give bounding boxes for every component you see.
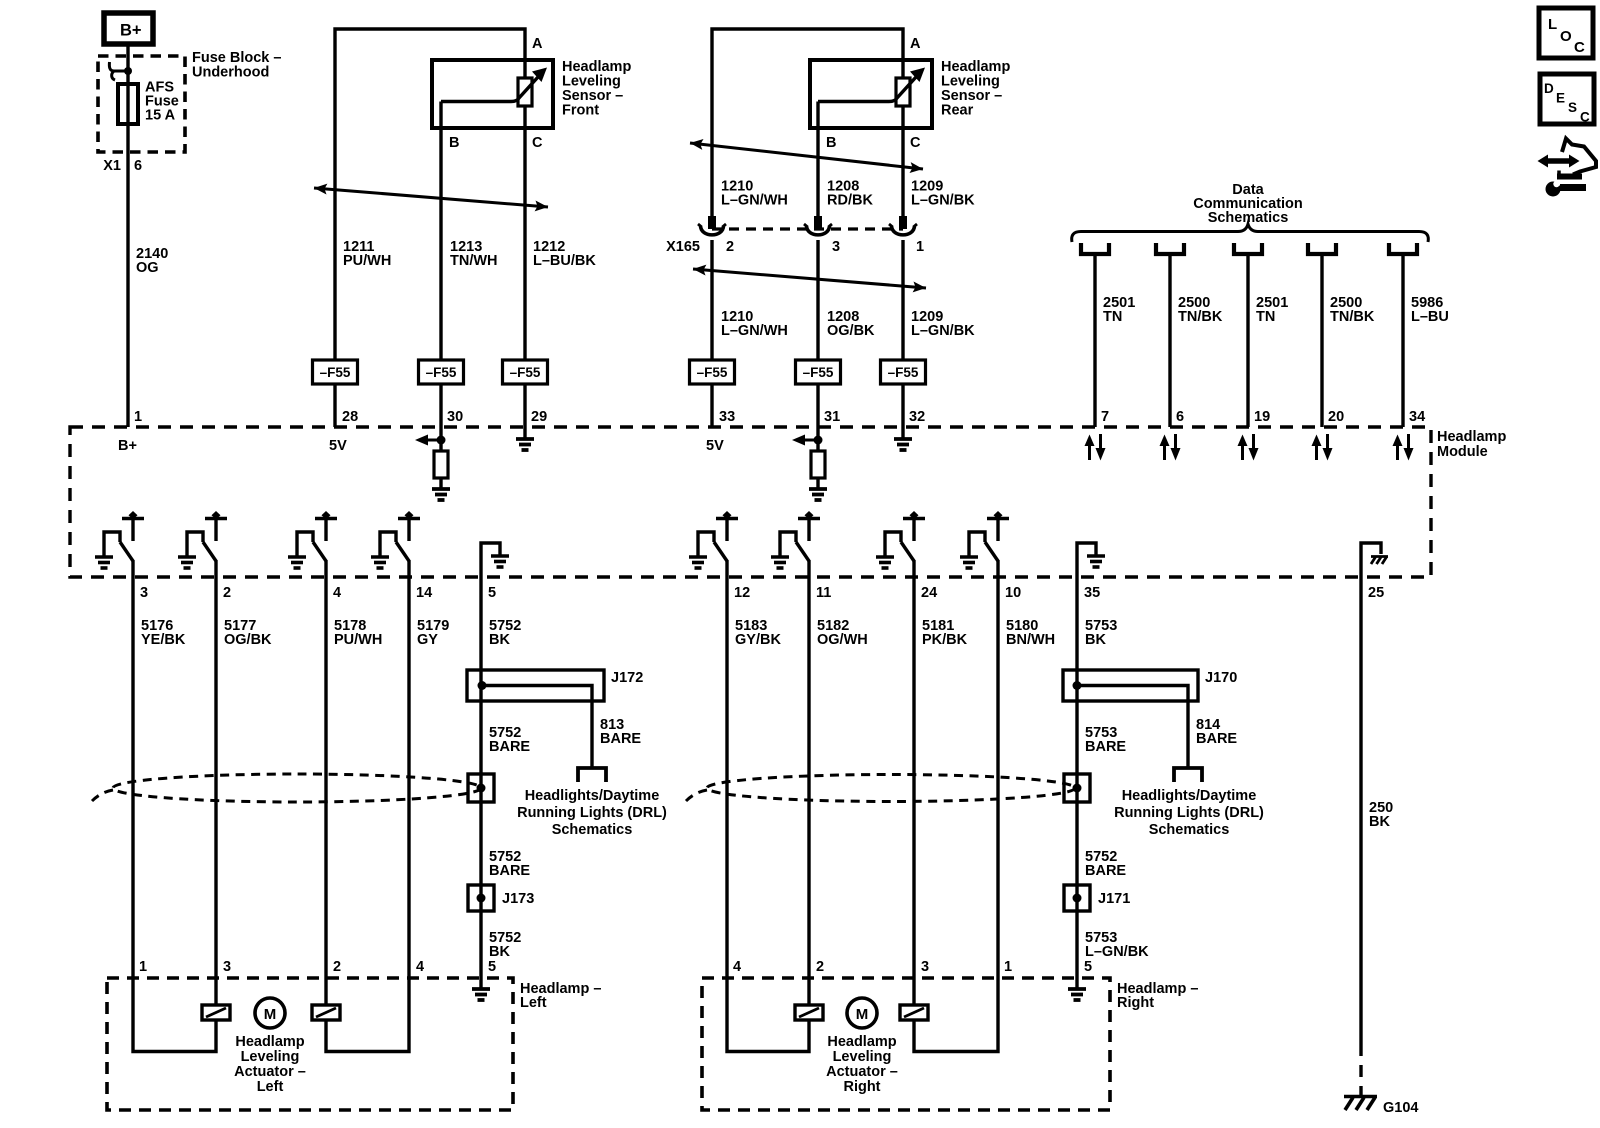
wire 5178 PU/WH module to headlamp left [324,577,327,978]
connector X165 terminal pin 2 [698,216,726,235]
label Headlamp Leveling Sensor - Front [562,59,631,119]
off-page continuation arrow (rear sensor wires upper) [690,139,923,173]
ground (driver pin 14) [371,557,389,568]
svg-text:M: M [856,1006,869,1023]
ground (headlamp left) [472,989,490,1000]
svg-text:BARE: BARE [1196,731,1237,747]
label Headlamp - Left [520,981,601,1011]
terminal symbol (serial data wire 2501 TN (a)) [1081,243,1109,254]
internal driver switch for pin 3 (5176) [104,511,144,561]
svg-text:–F55: –F55 [510,365,541,380]
connector C2 label box -F55 (wire 1211) [313,360,358,384]
connector X165 terminal pin 3 [804,216,832,235]
svg-text:6: 6 [134,158,142,174]
inline connector X165 dashed tie line [712,227,903,230]
svg-text:Schematics: Schematics [552,822,633,838]
svg-text:M: M [264,1006,277,1023]
wire label 1212 L-BU/BK [533,239,596,269]
svg-text:Rear: Rear [941,103,974,119]
svg-text:–F55: –F55 [803,365,834,380]
terminal symbol (serial data wire 2500 TN/BK (a)) [1156,243,1184,254]
wire 813 BARE branch from J172 [482,686,592,768]
svg-text:Front: Front [562,103,599,119]
wire label 5753 BARE [1085,725,1126,755]
svg-text:Running Lights (DRL): Running Lights (DRL) [1114,805,1264,821]
svg-text:4: 4 [416,959,424,975]
internal driver switch for pin 11 (5182) [780,511,820,561]
svg-text:1: 1 [1004,959,1012,975]
bidirectional data arrows at pin 7 [1085,434,1106,461]
svg-text:5: 5 [488,585,496,601]
wire 5179 GY module to headlamp left [407,577,410,978]
wire label 1213 TN/WH [450,239,498,269]
wire pin 3 to feedback resistor (right) [912,978,915,1005]
svg-text:D: D [1544,81,1554,96]
ground (driver pin 24) [876,557,894,568]
label Data Communication Schematics [1193,182,1303,226]
junction at J172 [478,681,487,690]
feedback resistor (headlamp right pin 2) [795,1005,823,1020]
feedback resistor (headlamp left pins 3) [202,1005,230,1020]
brace over data communication wires [1072,224,1429,242]
shield / loom dashed ellipse (right harness) [686,775,1075,802]
wire pin 5 to ground inside headlamp left [479,978,482,988]
junction at fuse holder [124,67,132,75]
ground (driver pin 12) [689,557,707,568]
connector X165 terminal pin 1 [889,216,917,235]
wire label 1210 L-GN/WH (lower) [721,309,788,339]
svg-text:TN/BK: TN/BK [1178,309,1223,325]
svg-text:GY: GY [417,632,438,648]
svg-text:2: 2 [333,959,341,975]
svg-text:5: 5 [488,959,496,975]
ground (pin 31 internal) [809,489,827,500]
motor M (headlamp leveling actuator left) [255,998,285,1028]
ground (pin 32 internal) [894,439,912,450]
svg-text:5V: 5V [706,438,724,454]
label Headlamp Module [1437,429,1506,460]
svg-text:29: 29 [531,409,547,425]
wire label 5753 L-GN/BK [1085,930,1149,960]
wire resistor to ground (pin 31) [816,478,819,488]
wire 5752 BK/BARE module pin 5 to headlamp left [479,577,482,978]
ground (driver pin 4) [288,557,306,568]
resistor (pin 30 pull-down) [434,451,448,478]
serial data wire 2501 TN (a) [1093,254,1096,427]
svg-text:BN/WH: BN/WH [1006,632,1055,648]
svg-text:OG/BK: OG/BK [224,632,272,648]
junction at shield drain (right) [1073,784,1082,793]
svg-text:–F55: –F55 [320,365,351,380]
connector C2 label box -F55 (wire 1210) [690,360,735,384]
wire label 5178 PU/WH [334,618,382,648]
shield / loom dashed ellipse (left harness) [92,774,481,802]
svg-text:L–GN/WH: L–GN/WH [721,323,788,339]
svg-text:7: 7 [1101,409,1109,425]
connector C2 label box -F55 (wire 1208) [796,360,841,384]
svg-text:Left: Left [520,995,547,1011]
svg-text:Underhood: Underhood [192,65,269,81]
internal chassis ground hook for pin 25 [1361,543,1381,577]
terminal symbol (serial data wire 2500 TN/BK (b)) [1308,243,1336,254]
off-page continuation arrow (rear sensor wires lower) [693,265,926,293]
svg-text:C: C [1580,110,1590,125]
battery feed B+ terminal box [104,13,153,44]
svg-text:35: 35 [1084,585,1100,601]
bidirectional data arrows at pin 20 [1312,434,1333,461]
svg-text:3: 3 [921,959,929,975]
junction at J173 [477,894,486,903]
splice J171 [1064,885,1090,911]
shield drain connector box (right) [1064,774,1090,802]
serial data wire 5986 L-BU [1401,254,1404,427]
svg-text:Headlights/Daytime: Headlights/Daytime [1122,788,1257,804]
svg-text:L: L [1548,16,1557,33]
wire 1209 L-GN/BK: sensor pin C through X165 pin 1 [901,106,904,360]
svg-text:B: B [449,135,459,151]
svg-text:PK/BK: PK/BK [922,632,968,648]
driver output to pin 10 [996,560,999,577]
headlamp - left (dashed outline) [107,978,513,1110]
wire resistor to ground (pin 30) [439,478,442,488]
label Headlights DRL Schematics (left) [517,788,667,838]
wire label 5752 BARE (mid-lower) [489,849,530,879]
ground (driver pin 2) [178,557,196,568]
driver output to pin 12 [725,560,728,577]
driver output to pin 24 [912,560,915,577]
svg-text:3: 3 [832,239,840,255]
svg-text:J172: J172 [611,670,643,686]
svg-text:E: E [1556,91,1565,106]
svg-text:3: 3 [140,585,148,601]
headlamp module U1 (dashed outline) [70,427,1431,577]
serial data wire 2500 TN/BK (b) [1320,254,1323,427]
wire pin 3 to feedback resistor (left) [214,978,217,1005]
internal ground hook for pin 35 [1077,543,1096,577]
svg-text:PU/WH: PU/WH [334,632,382,648]
serial data wire 2501 TN (b) [1246,254,1249,427]
svg-text:BARE: BARE [600,731,641,747]
wire headlamp right pins 4-2 link [727,978,809,1052]
wire label 5752 BARE (mid-upper) [489,725,530,755]
svg-text:L–GN/BK: L–GN/BK [911,193,975,209]
svg-text:6: 6 [1176,409,1184,425]
wire 2140 OG from B+ through AFS fuse to headlamp module pin 1 [126,44,129,427]
wire label 1211 PU/WH [343,239,391,269]
svg-text:28: 28 [342,409,358,425]
svg-text:5V: 5V [329,438,347,454]
connector C2 label box -F55 (wire 1213) [419,360,464,384]
svg-text:G104: G104 [1383,1100,1418,1116]
svg-text:RD/BK: RD/BK [827,193,873,209]
wire label 1210 L-GN/WH (upper) [721,179,788,209]
svg-text:32: 32 [909,409,925,425]
svg-text:L–GN/WH: L–GN/WH [721,193,788,209]
ground (headlamp right) [1068,989,1086,1000]
wire label 5179 GY [417,618,449,648]
svg-text:L–GN/BK: L–GN/BK [911,323,975,339]
wire label 5181 PK/BK [922,618,968,648]
internal driver switch for pin 14 (5179) [380,511,420,561]
svg-text:OG/WH: OG/WH [817,632,868,648]
svg-text:Actuator –: Actuator – [826,1064,898,1080]
svg-text:1: 1 [916,239,924,255]
feedback resistor (headlamp right pin 3) [900,1005,928,1020]
wire 1208 to module pin 31 [816,384,819,427]
internal driver switch for pin 4 (5178) [297,511,337,561]
chassis ground G104 [1344,1097,1377,1111]
wire 1209 to module pin 32 [901,384,904,427]
wire label 5752 BARE (right) [1085,849,1126,879]
junction at pin 31 input [814,436,823,445]
wire 1210 L-GN/WH loop: sensor pin A through X165 pin 2 [712,29,903,360]
wire label 5752 BK (upper) [489,618,521,648]
svg-text:1: 1 [134,409,142,425]
wire 814 BARE branch from J170 [1077,686,1188,768]
svg-text:L–BU: L–BU [1411,309,1449,325]
wire label 814 BARE [1196,717,1237,747]
svg-text:Headlights/Daytime: Headlights/Daytime [525,788,660,804]
wire 5180 BN/WH module to headlamp right [996,577,999,978]
driver output to pin 11 [807,560,810,577]
wire label 5180 BN/WH [1006,618,1055,648]
svg-text:Module: Module [1437,444,1488,460]
svg-text:12: 12 [734,585,750,601]
wire 5753 BK/BARE module pin 35 to headlamp right [1075,577,1078,978]
svg-text:11: 11 [816,585,831,601]
wire pin 29 to internal ground [523,427,526,438]
wire headlamp left pins 1-3 link [133,978,216,1052]
wire 5181 PK/BK module to headlamp right [912,577,915,978]
svg-text:Headlamp: Headlamp [1437,429,1506,445]
svg-text:4: 4 [333,585,341,601]
svg-text:X165: X165 [666,239,700,255]
internal driver switch for pin 2 (5177) [187,511,227,561]
label Headlamp - Right [1117,981,1198,1011]
signal tap arrow at pin 30 [415,435,441,446]
wire label 2501 TN [1256,295,1288,325]
svg-text:C: C [910,135,921,151]
svg-text:PU/WH: PU/WH [343,253,391,269]
wire label 1209 L-GN/BK (upper) [911,179,975,209]
splice pack J170 [1063,670,1198,701]
wire label 5177 OG/BK [224,618,272,648]
svg-text:31: 31 [824,409,840,425]
terminal symbol (serial data wire 5986 L-BU) [1389,243,1417,254]
svg-text:Running Lights (DRL): Running Lights (DRL) [517,805,667,821]
headlamp - right (dashed outline) [702,978,1110,1110]
wire 5183 GY/BK module to headlamp right [725,577,728,978]
svg-text:Leveling: Leveling [833,1049,892,1065]
chassis ground symbol (pin 25 internal) [1371,557,1388,565]
junction at pin 30 input [437,436,446,445]
svg-text:TN: TN [1256,309,1275,325]
diagnostic navigation icon (arrow / panel / wrench) [1538,139,1597,197]
label Headlights DRL Schematics (right) [1114,788,1264,838]
wire label 2501 TN [1103,295,1135,325]
svg-text:2: 2 [726,239,734,255]
ground (pin 30 internal) [432,489,450,500]
wire pin 30 to internal pull-up [439,427,442,451]
svg-text:Left: Left [257,1079,284,1095]
svg-text:–F55: –F55 [888,365,919,380]
fuse AFS 15 A [118,84,138,124]
svg-text:L–GN/BK: L–GN/BK [1085,944,1149,960]
ground (pin 35 internal) [1087,556,1105,567]
bidirectional data arrows at pin 6 [1160,434,1181,461]
svg-text:–F55: –F55 [426,365,457,380]
svg-text:OG/BK: OG/BK [827,323,875,339]
svg-text:2: 2 [816,959,824,975]
internal ground hook for pin 5 [481,543,500,577]
wire pin 32 to internal ground [901,427,904,438]
wire 5182 OG/WH module to headlamp right [807,577,810,978]
ground (pin 29 internal) [516,439,534,450]
svg-text:3: 3 [223,959,231,975]
shield drain connector box (left) [468,774,494,802]
terminal symbol (serial data wire 2501 TN (b)) [1234,243,1262,254]
label Headlamp Leveling Sensor - Rear [941,59,1010,119]
junction at J170 [1073,681,1082,690]
wiper arrow (front sensor) [441,68,547,102]
svg-text:BARE: BARE [1085,863,1126,879]
wire label 1209 L-GN/BK (lower) [911,309,975,339]
wire label 5752 BK (lower) [489,930,521,960]
svg-text:5: 5 [1084,959,1092,975]
svg-text:14: 14 [416,585,432,601]
svg-text:BK: BK [489,944,510,960]
wire 1213 TN/WH: sensor pin B wiper to module pin 30 [439,102,442,361]
wire label 1208 RD/BK [827,179,873,209]
svg-text:A: A [532,36,543,52]
internal driver switch for pin 10 (5180) [969,511,1009,561]
svg-text:BARE: BARE [1085,739,1126,755]
wire label 5182 OG/WH [817,618,868,648]
wire headlamp left pins 2-4 link [326,978,409,1052]
wire 1212 L-BU/BK: sensor pin C to module pin 29 [523,106,526,360]
headlamp leveling sensor - front (outline) [432,60,553,128]
svg-text:Schematics: Schematics [1149,822,1230,838]
fuse holder terminal hook [109,62,128,80]
wire pin 5 to ground inside headlamp right [1075,978,1078,988]
svg-text:BARE: BARE [489,863,530,879]
connector C2 label box -F55 (wire 1209) [881,360,926,384]
svg-text:J170: J170 [1205,670,1237,686]
svg-text:BARE: BARE [489,739,530,755]
svg-text:19: 19 [1254,409,1270,425]
bidirectional data arrows at pin 34 [1393,434,1414,461]
wire pin 2 to feedback resistor (right) [807,978,810,1005]
label Headlamp Leveling Actuator - Right [826,1034,898,1095]
svg-text:10: 10 [1005,585,1021,601]
wire label 5176 YE/BK [141,618,186,648]
svg-text:4: 4 [733,959,741,975]
svg-text:–F55: –F55 [697,365,728,380]
wire label 2140 OG [136,246,168,276]
svg-text:J171: J171 [1098,891,1130,907]
svg-text:1: 1 [139,959,147,975]
wire 1211 to module pin 28 [333,384,336,427]
wire pin 31 to internal pull-up [816,427,819,451]
svg-text:Right: Right [843,1079,880,1095]
splice pack J172 [467,670,604,701]
svg-text:B+: B+ [120,22,142,40]
wire label 2500 TN/BK [1330,295,1375,325]
wire label 5753 BK (upper) [1085,618,1117,648]
LOC navigation box [1539,8,1593,58]
svg-text:TN: TN [1103,309,1122,325]
svg-text:B: B [826,135,836,151]
internal driver switch for pin 12 (5183) [698,511,738,561]
wiper arrow (rear sensor) [818,68,925,102]
svg-text:24: 24 [921,585,937,601]
label Fuse Block - Underhood [192,50,281,81]
wire 5177 OG/BK module to headlamp left [214,577,217,978]
svg-text:O: O [1560,28,1572,45]
svg-text:Leveling: Leveling [241,1049,300,1065]
potentiometer (front sensor) [518,78,532,106]
driver output to pin 2 [214,560,217,577]
wire 250 BK dashed section [1359,1044,1362,1095]
svg-text:TN/WH: TN/WH [450,253,498,269]
wire 5176 YE/BK module to headlamp left [131,577,134,978]
ground (driver pin 10) [960,557,978,568]
off-page continuation arrow (front sensor wires) [314,184,548,212]
label Headlamp Leveling Actuator - Left [234,1034,306,1095]
wire label 1208 OG/BK [827,309,875,339]
svg-text:GY/BK: GY/BK [735,632,781,648]
svg-text:C: C [1574,39,1585,56]
svg-text:OG: OG [136,260,159,276]
svg-text:Headlamp: Headlamp [235,1034,304,1050]
svg-text:2: 2 [223,585,231,601]
svg-text:B+: B+ [118,438,137,454]
wire 1213 to module pin 30 [439,384,442,427]
wire 1210 to module pin 33 [710,384,713,427]
splice J173 [468,885,494,911]
wire label 250 BK [1369,800,1393,830]
junction at shield drain (left) [477,784,486,793]
terminal symbol (wire 813 to DRL schematics) [578,768,606,782]
svg-text:BK: BK [1085,632,1106,648]
svg-text:C: C [532,135,543,151]
ground (driver pin 11) [771,557,789,568]
svg-text:33: 33 [719,409,735,425]
internal driver switch for pin 24 (5181) [885,511,925,561]
wire label 2500 TN/BK [1178,295,1223,325]
wire 1212 to module pin 29 [523,384,526,427]
junction at J171 [1073,894,1082,903]
wire 250 BK module pin 25 to G104 [1359,577,1362,1044]
headlamp leveling sensor - rear (outline) [810,60,932,128]
wire 1208 RD/BK-OG/BK: sensor pin B through X165 pin 3 [816,102,819,361]
svg-text:A: A [910,36,921,52]
svg-text:Actuator –: Actuator – [234,1064,306,1080]
svg-text:Right: Right [1117,995,1154,1011]
potentiometer (rear sensor) [896,78,910,106]
signal tap arrow at pin 31 [792,435,818,446]
svg-text:BK: BK [489,632,510,648]
svg-text:J173: J173 [502,891,534,907]
ground (pin 5 internal) [491,556,509,567]
svg-text:L–BU/BK: L–BU/BK [533,253,596,269]
motor M (headlamp leveling actuator right) [847,998,877,1028]
wire label 5183 GY/BK [735,618,781,648]
driver output to pin 4 [324,560,327,577]
svg-text:25: 25 [1368,585,1384,601]
fuse block underhood (dashed outline) [98,56,185,152]
svg-text:20: 20 [1328,409,1344,425]
